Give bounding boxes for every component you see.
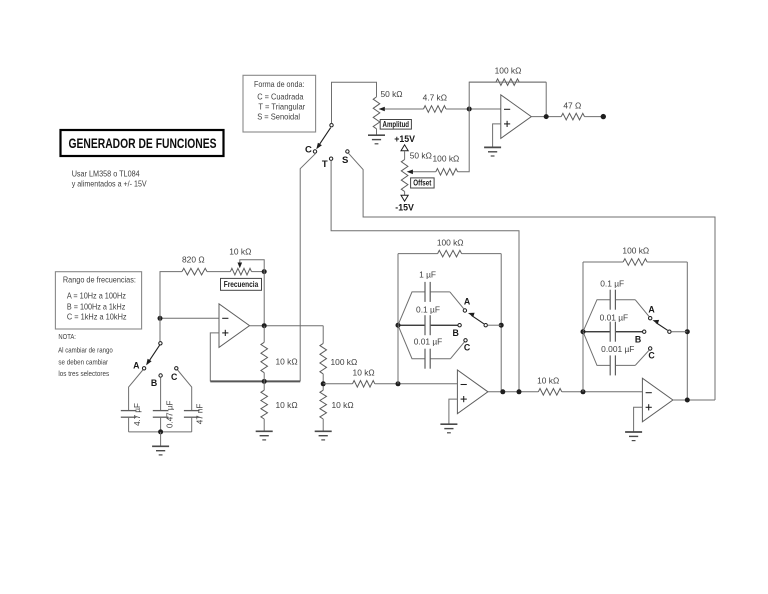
svg-text:4.7 kΩ: 4.7 kΩ [423, 92, 447, 102]
svg-text:B = 100Hz a 1kHz: B = 100Hz a 1kHz [67, 302, 126, 311]
svg-text:Forma de onda:: Forma de onda: [254, 80, 304, 89]
svg-text:Usar LM358 o TL084: Usar LM358 o TL084 [72, 169, 140, 178]
svg-text:47 nF: 47 nF [196, 404, 205, 425]
svg-text:C: C [171, 372, 178, 382]
svg-text:10 kΩ: 10 kΩ [229, 247, 251, 257]
svg-text:10 kΩ: 10 kΩ [332, 400, 354, 410]
svg-text:100 kΩ: 100 kΩ [622, 246, 649, 256]
svg-text:C = Cuadrada: C = Cuadrada [257, 93, 304, 102]
svg-text:A: A [648, 304, 655, 314]
svg-text:0.01 µF: 0.01 µF [414, 336, 443, 346]
svg-text:0.1 µF: 0.1 µF [416, 304, 440, 314]
svg-text:10 kΩ: 10 kΩ [276, 400, 298, 410]
svg-text:50 kΩ: 50 kΩ [410, 151, 432, 161]
svg-text:Rango de frecuencias:: Rango de frecuencias: [63, 275, 136, 284]
svg-text:y alimentados a +/- 15V: y alimentados a +/- 15V [72, 180, 148, 189]
svg-text:B: B [453, 328, 459, 338]
svg-text:los tres selectores: los tres selectores [58, 369, 109, 378]
svg-text:100 kΩ: 100 kΩ [433, 154, 460, 164]
svg-text:NOTA:: NOTA: [58, 332, 76, 341]
svg-text:-15V: -15V [395, 203, 414, 213]
svg-text:0.1 µF: 0.1 µF [600, 278, 624, 288]
svg-text:50 kΩ: 50 kΩ [380, 89, 402, 99]
svg-text:T: T [322, 159, 328, 170]
svg-text:S: S [342, 155, 348, 166]
svg-text:A = 10Hz a 100Hz: A = 10Hz a 100Hz [67, 292, 126, 301]
svg-text:0.47 µF: 0.47 µF [165, 401, 174, 428]
svg-text:Al cambiar de rango: Al cambiar de rango [58, 346, 113, 355]
svg-text:820 Ω: 820 Ω [182, 254, 205, 264]
svg-text:100 kΩ: 100 kΩ [331, 357, 358, 367]
svg-text:100 kΩ: 100 kΩ [495, 66, 522, 76]
svg-text:10 kΩ: 10 kΩ [537, 375, 559, 385]
svg-text:GENERADOR DE FUNCIONES: GENERADOR DE FUNCIONES [69, 136, 217, 151]
svg-text:+15V: +15V [394, 134, 415, 144]
svg-text:C = 1kHz a 10kHz: C = 1kHz a 10kHz [67, 313, 127, 322]
svg-text:0.001 µF: 0.001 µF [601, 344, 634, 354]
svg-text:0.01 µF: 0.01 µF [600, 313, 629, 323]
svg-text:se deben cambiar: se deben cambiar [58, 357, 108, 366]
svg-text:Amplitud: Amplitud [383, 120, 410, 129]
svg-text:10 kΩ: 10 kΩ [353, 367, 375, 377]
svg-text:A: A [133, 360, 140, 370]
svg-text:B: B [151, 378, 157, 388]
svg-text:4.7 µF: 4.7 µF [133, 403, 142, 426]
svg-text:Offset: Offset [413, 179, 431, 188]
svg-text:47 Ω: 47 Ω [563, 100, 581, 110]
svg-text:Frecuencia: Frecuencia [224, 280, 259, 289]
svg-text:C: C [464, 343, 471, 353]
svg-text:1 µF: 1 µF [419, 270, 436, 280]
svg-text:T = Triangular: T = Triangular [258, 103, 305, 112]
svg-text:100 kΩ: 100 kΩ [437, 237, 464, 247]
svg-text:A: A [464, 297, 471, 307]
svg-text:C: C [305, 144, 312, 155]
svg-text:B: B [635, 335, 641, 345]
svg-text:S = Senoidal: S = Senoidal [257, 113, 300, 122]
svg-text:C: C [648, 351, 655, 361]
svg-text:10 kΩ: 10 kΩ [276, 356, 298, 366]
